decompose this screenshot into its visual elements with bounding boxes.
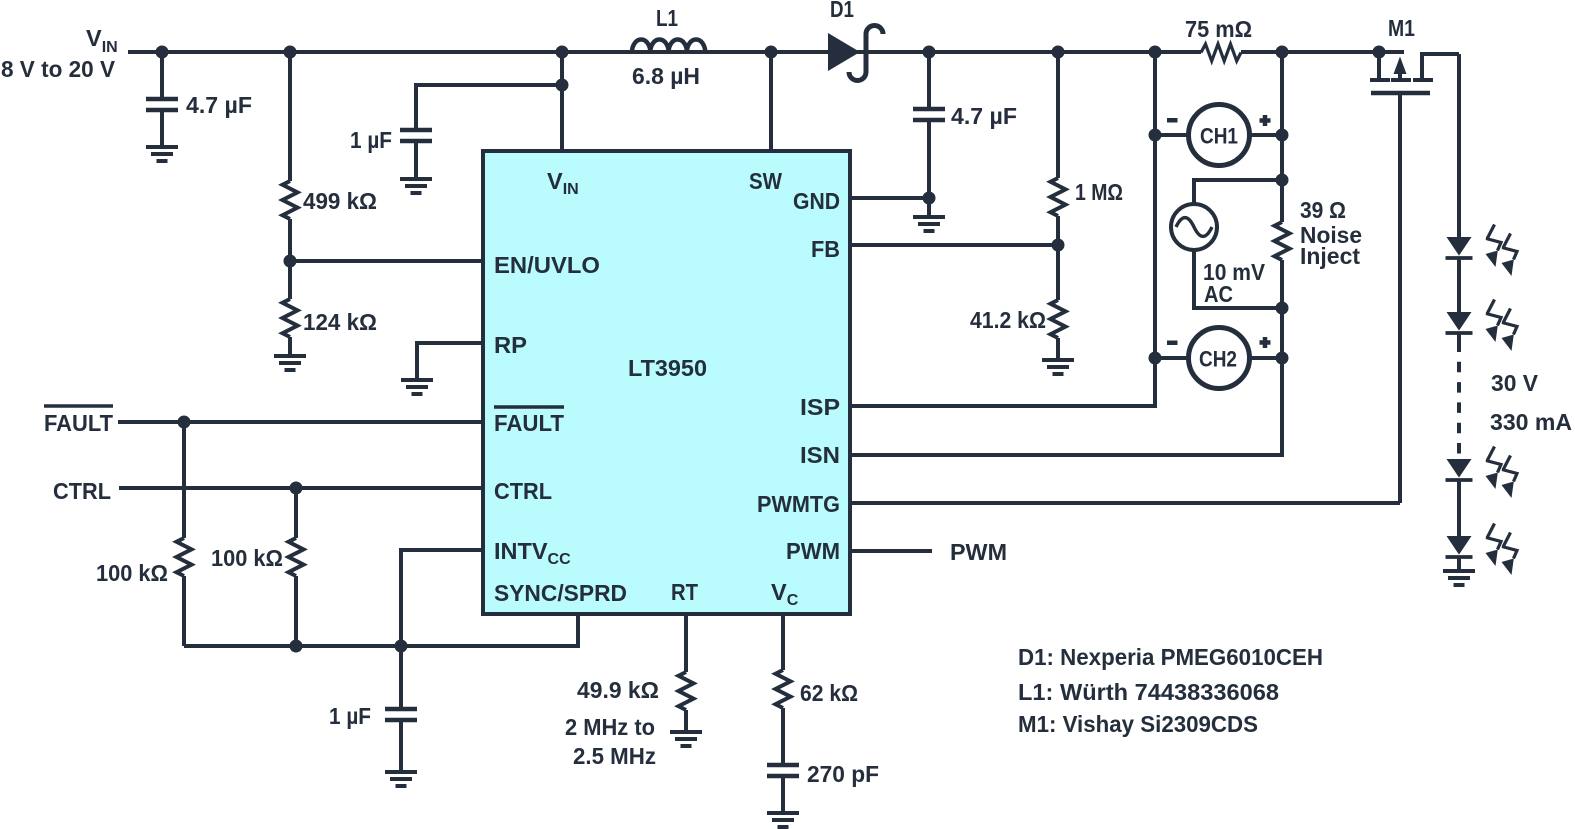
node junction dot 1M top — [1052, 46, 1065, 59]
svg-text:L1: Würth 74438336068: L1: Würth 74438336068 — [1018, 679, 1279, 705]
svg-text:RP: RP — [494, 332, 527, 358]
wire CTRL net — [119, 486, 482, 490]
ground RP — [401, 380, 433, 394]
wire top rail VIN to M1 — [128, 50, 1404, 54]
wire LED3-LED4 — [1457, 481, 1461, 536]
svg-text:4.7 µF: 4.7 µF — [951, 103, 1017, 129]
svg-text:2.5 MHz: 2.5 MHz — [573, 743, 656, 769]
ground 1uF intvcc — [385, 772, 417, 786]
svg-text:AC: AC — [1204, 281, 1233, 307]
svg-text:D1: Nexperia PMEG6010CEH: D1: Nexperia PMEG6010CEH — [1018, 644, 1323, 670]
svg-text:75 mΩ: 75 mΩ — [1185, 16, 1252, 42]
zap LED D2 — [1486, 225, 1518, 277]
ground input cap — [146, 147, 178, 161]
ground RT — [670, 732, 702, 746]
node junction dot CH1 minus rail — [1149, 46, 1162, 59]
svg-text:330 mA: 330 mA — [1490, 409, 1572, 435]
resistor 49.9k RT — [565, 612, 694, 769]
svg-text:FAULT: FAULT — [44, 410, 114, 436]
wire FAULT net — [118, 420, 482, 424]
wire SW pin drop — [769, 52, 773, 150]
wire EN/UVLO — [290, 259, 482, 263]
LED D4 — [1446, 459, 1473, 480]
node junction dot FAULT pullup — [178, 416, 191, 429]
wire PWM stub — [851, 549, 932, 553]
svg-text:M1: Vishay Si2309CDS: M1: Vishay Si2309CDS — [1018, 711, 1258, 737]
node junction dot CH1 right — [1276, 129, 1289, 142]
node junction dot VIN pin — [556, 46, 569, 59]
svg-text:270 pF: 270 pF — [807, 761, 879, 787]
ground 41.2k — [1042, 360, 1074, 374]
pin FAULT label — [494, 407, 565, 436]
resistor 100k fault — [96, 422, 192, 646]
wire right sense vertical upper — [1280, 52, 1284, 222]
svg-text:RT: RT — [671, 579, 699, 605]
ground 124k — [274, 356, 306, 370]
node load label — [1490, 370, 1572, 435]
wire LED1-LED2 — [1457, 260, 1461, 313]
probe CH1 — [1167, 105, 1271, 166]
wire RP — [417, 343, 482, 380]
svg-text:1 µF: 1 µF — [329, 703, 371, 729]
capacitor 4.7uF output — [913, 52, 1017, 217]
wire PWMTG — [851, 501, 1400, 505]
wire INTVCC — [401, 550, 482, 646]
svg-text:39 Ω: 39 Ω — [1300, 197, 1346, 223]
node junction dot CH1 left — [1149, 129, 1162, 142]
wire CH1 right stub — [1249, 133, 1282, 137]
resistor 39 Ohm noise inject — [1275, 197, 1363, 269]
svg-text:SYNC/SPRD: SYNC/SPRD — [494, 580, 627, 606]
wire 41.2k bottom — [1056, 338, 1060, 360]
node junction dot ctrl rail — [290, 640, 303, 653]
zap LED D3 — [1486, 300, 1518, 352]
resistor 62k VC — [776, 612, 859, 767]
node junction dot 1uF branch — [556, 79, 569, 92]
svg-text:49.9 kΩ: 49.9 kΩ — [577, 677, 659, 703]
svg-text:41.2 kΩ: 41.2 kΩ — [970, 307, 1046, 333]
svg-text:CTRL: CTRL — [494, 478, 552, 504]
svg-text:ISN: ISN — [800, 442, 840, 468]
wire left sense vertical — [851, 52, 1155, 406]
capacitor 4.7uF input — [146, 52, 252, 147]
node VIN label — [1, 25, 118, 82]
transistor M1 PMOS — [1370, 15, 1459, 93]
svg-text:30 V: 30 V — [1491, 370, 1538, 396]
node junction dot SW — [765, 46, 778, 59]
resistor 75 mOhm sense — [1185, 16, 1252, 61]
svg-text:EN/UVLO: EN/UVLO — [494, 252, 600, 278]
wire 499k to 124k — [288, 219, 292, 299]
svg-text:1 µF: 1 µF — [350, 127, 392, 153]
svg-text:D1: D1 — [830, 0, 854, 22]
node junction dot CH2 left — [1149, 352, 1162, 365]
wire CH2 left stub — [1155, 356, 1189, 360]
wire CH2 right stub — [1249, 356, 1282, 360]
wire 124k bottom — [288, 337, 292, 356]
resistor 1M — [1051, 178, 1124, 216]
capacitor 1uF intvcc — [329, 646, 417, 772]
LED D3 — [1446, 312, 1473, 333]
svg-text:PWM: PWM — [786, 538, 840, 564]
wire AC bottom — [1194, 248, 1282, 308]
wire 1uF branch — [416, 85, 562, 132]
svg-text:ISP: ISP — [800, 394, 840, 420]
diode D1 — [828, 0, 883, 81]
LED D2 — [1446, 237, 1473, 258]
svg-text:2 MHz to: 2 MHz to — [565, 714, 655, 740]
resistor 124k — [283, 299, 378, 337]
node junction dot AC bottom — [1276, 302, 1289, 315]
node junction dot input cap — [156, 46, 169, 59]
node junction dot 499k top — [284, 46, 297, 59]
wire FB — [851, 243, 1058, 247]
node junction dot CH2 right — [1276, 352, 1289, 365]
LED D5 — [1446, 536, 1473, 557]
svg-text:FB: FB — [811, 236, 840, 262]
node junction dot output cap — [923, 46, 936, 59]
node junction dot FB — [1052, 239, 1065, 252]
resistor 499k — [283, 181, 378, 219]
probe CH2 — [1167, 328, 1271, 389]
svg-text:Inject: Inject — [1300, 243, 1360, 269]
wire AC top — [1194, 180, 1282, 206]
node junction dot CTRL pullup — [290, 482, 303, 495]
svg-text:LT3950: LT3950 — [628, 355, 707, 381]
svg-text:62 kΩ: 62 kΩ — [800, 680, 858, 706]
ground 1uF vin — [400, 179, 432, 193]
wire 1M to 41.2k — [1056, 216, 1060, 300]
capacitor 270pF — [767, 761, 879, 813]
svg-text:124 kΩ: 124 kΩ — [303, 309, 377, 335]
wire right sense vertical lower — [851, 260, 1282, 455]
svg-text:CH1: CH1 — [1200, 124, 1238, 149]
svg-text:8 V to 20 V: 8 V to 20 V — [1, 56, 115, 82]
svg-text:6.8 µH: 6.8 µH — [632, 63, 700, 89]
zap LED D5 — [1486, 524, 1518, 576]
svg-text:4.7 µF: 4.7 µF — [186, 92, 252, 118]
capacitor 1uF vin — [350, 127, 432, 179]
svg-text:SW: SW — [749, 168, 783, 194]
svg-text:PWM: PWM — [950, 539, 1007, 565]
node FAULT input label — [44, 406, 114, 436]
node junction dot GND — [923, 192, 936, 205]
resistor 100k ctrl — [211, 488, 304, 646]
svg-text:499 kΩ: 499 kΩ — [303, 188, 377, 214]
wire 499k top — [288, 52, 292, 181]
zap LED D4 — [1486, 447, 1518, 499]
svg-text:100 kΩ: 100 kΩ — [211, 545, 283, 571]
wire bottom rail to SYNC — [184, 612, 578, 646]
svg-text:GND: GND — [793, 188, 840, 214]
node junction dot EN divider — [284, 255, 297, 268]
svg-text:M1: M1 — [1388, 15, 1415, 41]
wire 1M top — [1056, 52, 1060, 178]
inductor L1 — [632, 5, 705, 89]
svg-text:CH2: CH2 — [1199, 347, 1237, 372]
wire LED dashed continuation — [1457, 334, 1461, 352]
node junction dot CH1 plus rail — [1276, 46, 1289, 59]
node junction dot AC top — [1276, 174, 1289, 187]
wire GND pin — [851, 196, 929, 200]
svg-text:CTRL: CTRL — [53, 478, 111, 504]
note parts list — [1018, 644, 1323, 737]
ground 270pF — [767, 813, 799, 827]
svg-text:L1: L1 — [656, 5, 678, 31]
wire CH1 left stub — [1155, 133, 1189, 137]
ground output cap — [913, 217, 945, 231]
node junction dot intvcc rail — [395, 640, 408, 653]
wire M1 gate to PWMTG — [1398, 95, 1402, 503]
node junction dot M1 gate rail — [1373, 46, 1386, 59]
svg-text:100 kΩ: 100 kΩ — [96, 560, 168, 586]
ground LED string — [1457, 558, 1461, 571]
resistor 41.2k — [970, 300, 1066, 338]
svg-text:1 MΩ: 1 MΩ — [1075, 179, 1123, 205]
svg-text:PWMTG: PWMTG — [757, 491, 840, 517]
svg-text:FAULT: FAULT — [494, 410, 565, 436]
wire M1 drain to LED string — [1457, 54, 1461, 237]
op-amp U1 LT3950 IC body — [483, 151, 850, 614]
source 10mV AC — [1171, 204, 1265, 307]
wire VIN pin drop — [560, 52, 564, 150]
